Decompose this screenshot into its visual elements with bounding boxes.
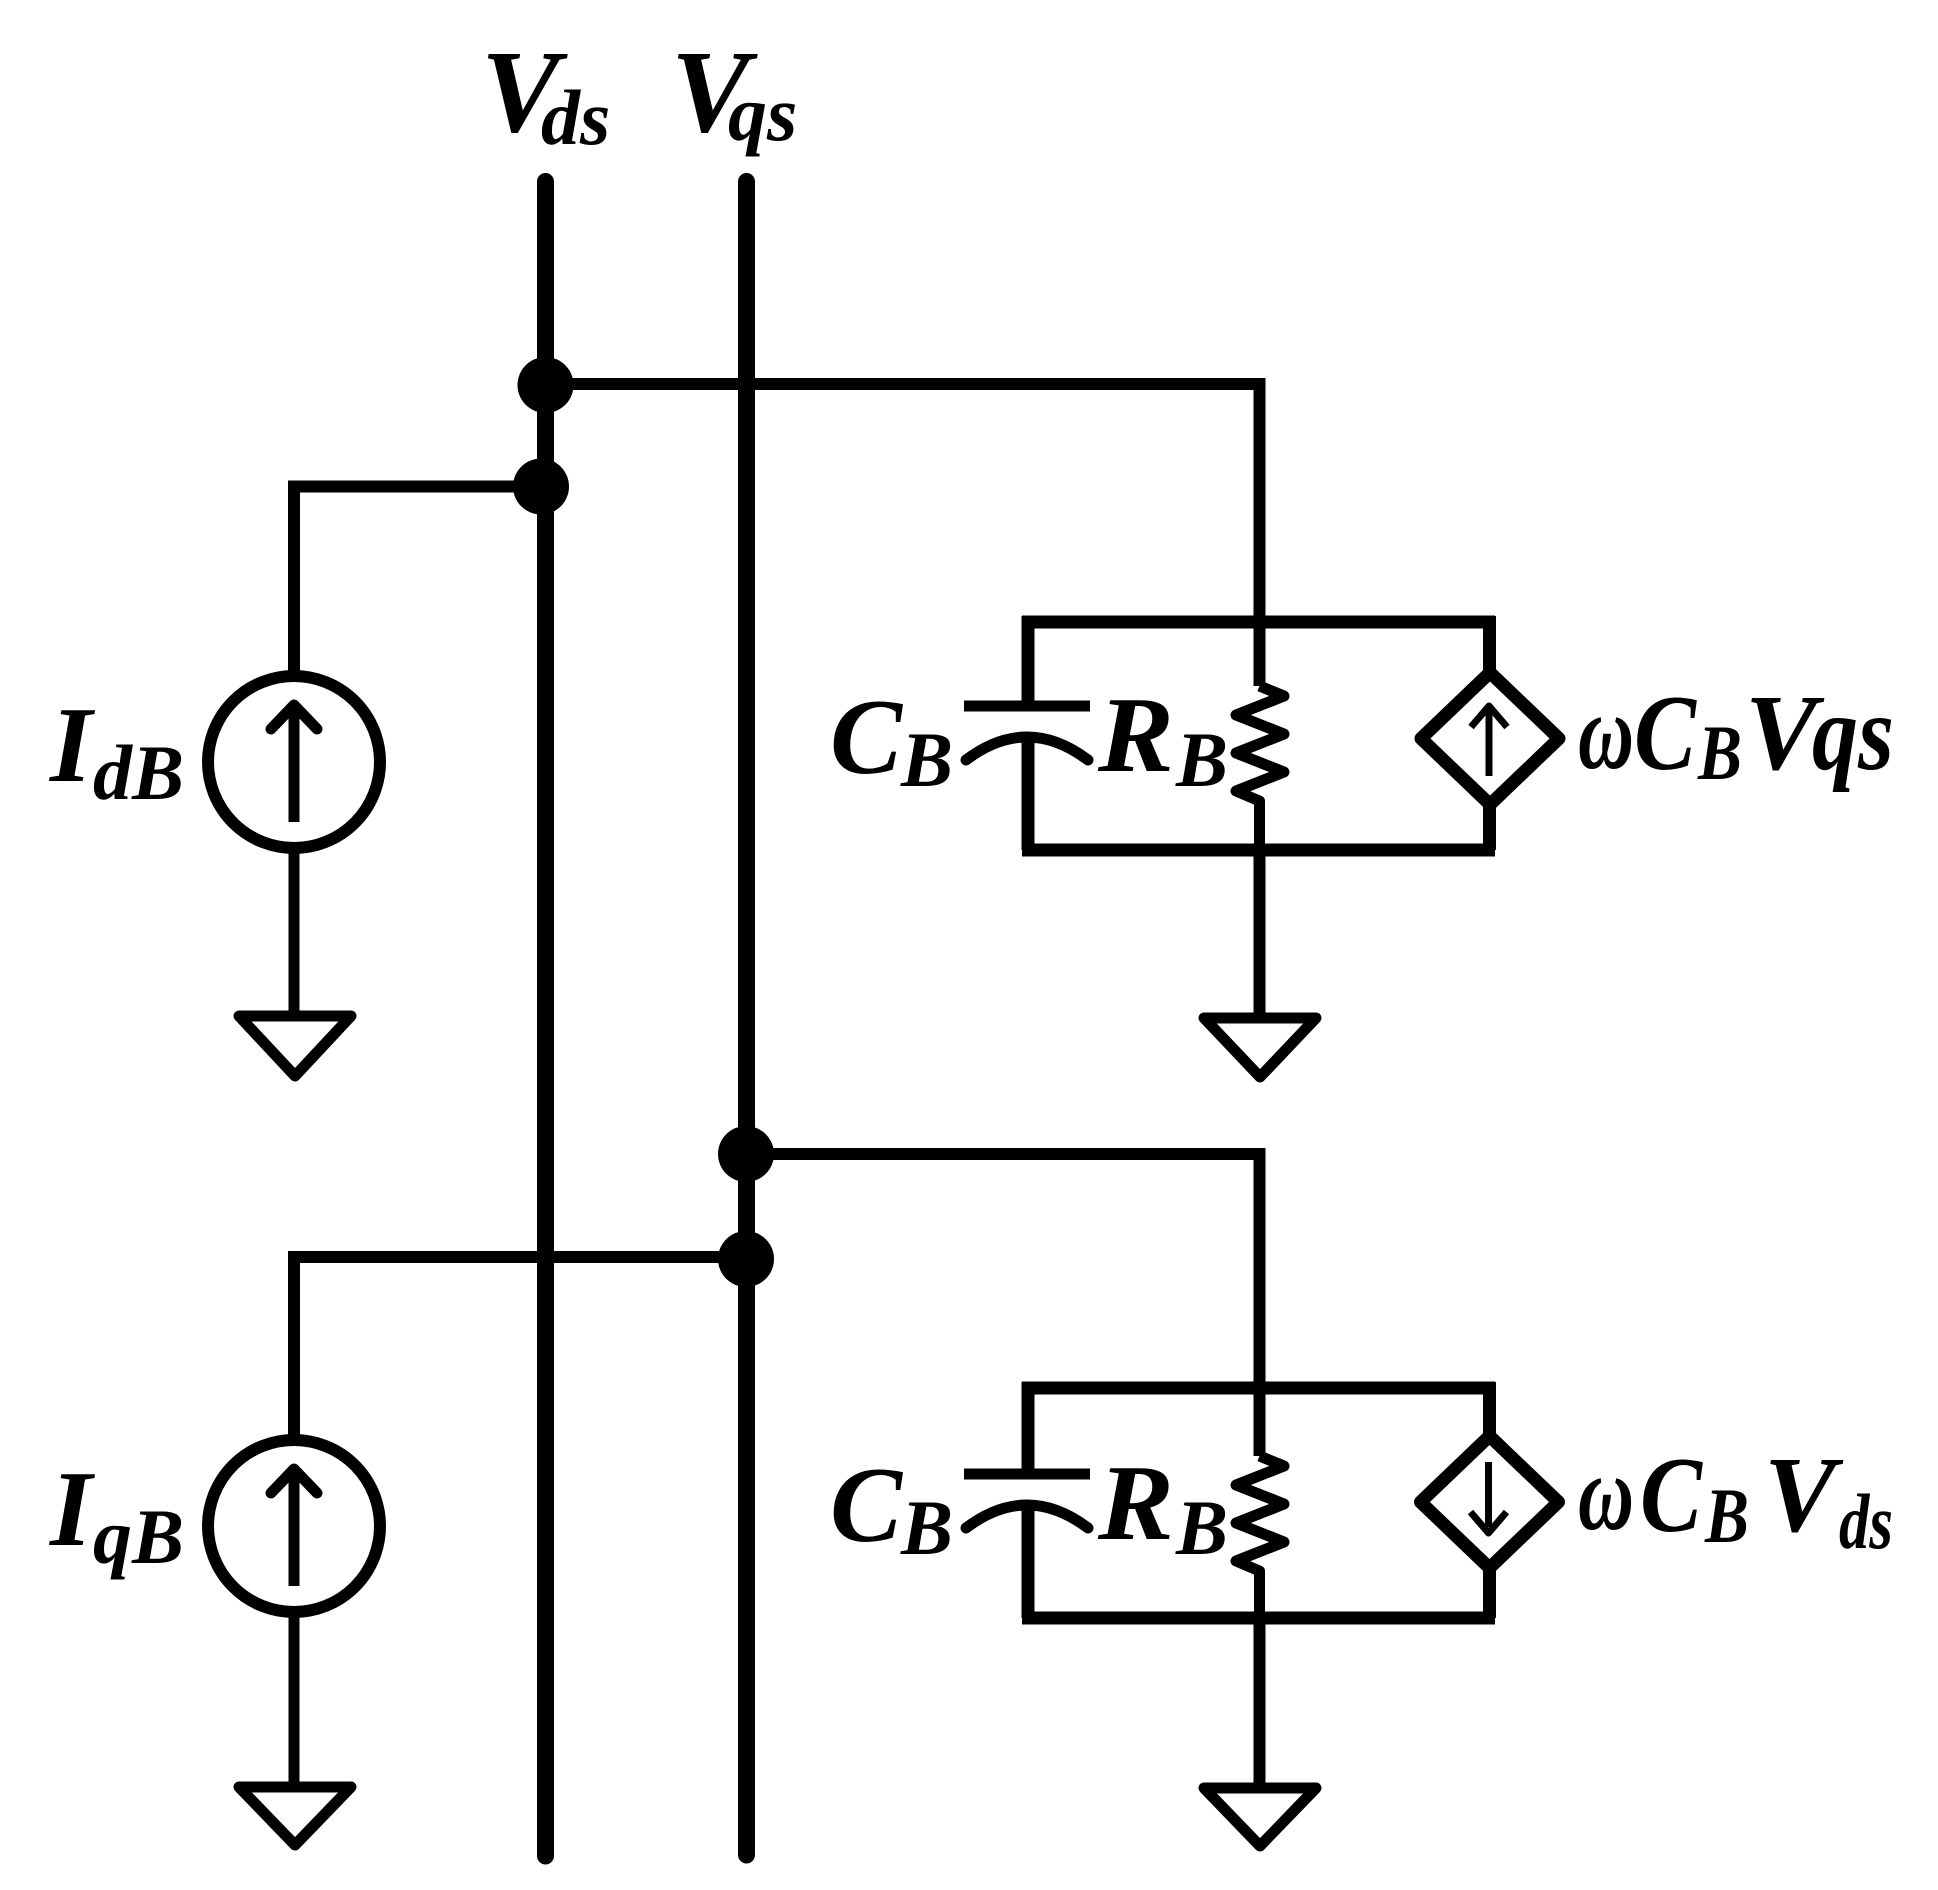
ground (under IdB) <box>239 1016 351 1076</box>
wire dependent source branch upper <box>1483 1382 1496 1440</box>
label IdB <box>48 686 184 816</box>
wire capacitor branch upper <box>1022 616 1035 701</box>
svg-text:dB: dB <box>93 729 184 816</box>
wire dependent source branch upper <box>1483 616 1496 676</box>
node Vds label <box>481 26 610 161</box>
wire Vds bus line <box>537 182 554 1857</box>
ground (under IqB) <box>239 1787 351 1845</box>
wire from IqB up and right to Vqs junction <box>294 1257 746 1436</box>
resistor RB zigzag <box>1236 1456 1284 1618</box>
current source IdB circle <box>208 676 380 848</box>
wire Vqs bus line <box>738 182 755 1856</box>
wire from Vqs junction right and down to bottom RC network resistor <box>746 1154 1260 1456</box>
svg-text:B: B <box>900 716 953 803</box>
capacitor CB curved plate <box>966 737 1088 760</box>
wire bottom rail <box>1022 844 1495 857</box>
svg-text:V: V <box>1764 1436 1844 1555</box>
label CB <box>830 678 953 803</box>
current source IqB arrow <box>271 1469 317 1586</box>
label CB <box>830 1446 953 1571</box>
svg-text:B: B <box>1175 1484 1228 1571</box>
capacitor CB top plate <box>964 1469 1090 1480</box>
dependent source up arrow <box>1471 706 1507 776</box>
junction dot on Vds (to top-right RC network) <box>518 357 574 413</box>
svg-text:I: I <box>48 1450 96 1569</box>
wire capacitor branch lower <box>1022 737 1035 850</box>
svg-text:R: R <box>1097 1444 1174 1563</box>
label RB <box>1097 1444 1228 1571</box>
wire bottom rail <box>1022 1612 1495 1625</box>
wire IdB to ground <box>289 848 300 1011</box>
dependent source diamond (wCBVds) <box>1421 1436 1559 1568</box>
svg-text:C: C <box>1640 1436 1704 1555</box>
svg-text:I: I <box>48 686 96 805</box>
svg-text:ω: ω <box>1578 1434 1634 1553</box>
wire capacitor branch lower <box>1022 1505 1035 1618</box>
wire from IdB up and right to Vds junction <box>294 487 541 673</box>
svg-text:ds: ds <box>541 74 610 161</box>
label IqB <box>48 1450 184 1580</box>
wire bottom rail to ground <box>1254 1618 1266 1783</box>
svg-text:B: B <box>900 1484 953 1571</box>
svg-text:C: C <box>1634 674 1698 793</box>
svg-text:C: C <box>830 1446 904 1565</box>
wire top rail <box>1022 616 1495 629</box>
wire bottom rail to ground <box>1254 850 1266 1013</box>
svg-text:qs: qs <box>728 70 797 157</box>
label wCBVqs <box>1578 673 1894 796</box>
junction dot on Vds (to IdB source) <box>513 459 569 515</box>
junction dot on Vqs (to IqB source) <box>718 1231 774 1287</box>
capacitor CB curved plate <box>966 1505 1088 1528</box>
svg-text:C: C <box>830 678 904 797</box>
wire IqB to ground <box>289 1612 300 1782</box>
wire capacitor branch upper <box>1022 1382 1035 1469</box>
wire top rail <box>1022 1382 1495 1395</box>
svg-text:ds: ds <box>1839 1478 1893 1565</box>
capacitor CB top plate <box>964 701 1090 712</box>
wire dependent source branch lower <box>1483 1566 1496 1618</box>
current source IqB circle <box>208 1440 380 1612</box>
dependent source diamond (wCBVqs) <box>1421 673 1559 805</box>
junction dot on Vqs (to bottom-right RC network) <box>718 1126 774 1182</box>
label RB <box>1097 676 1228 803</box>
svg-text:ω: ω <box>1578 673 1634 792</box>
ground (bottom-right network) <box>1204 1788 1316 1846</box>
wire from Vds junction right and down to top RC network resistor <box>546 384 1260 686</box>
svg-text:qB: qB <box>93 1493 184 1580</box>
dependent source down arrow <box>1471 1462 1507 1533</box>
wire dependent source branch lower <box>1483 802 1496 850</box>
svg-text:B: B <box>1697 709 1742 796</box>
svg-text:B: B <box>1175 716 1228 803</box>
svg-text:qs: qs <box>1812 674 1894 793</box>
node Vqs label <box>671 26 797 157</box>
svg-text:B: B <box>1704 1472 1749 1559</box>
ground (top-right network) <box>1204 1018 1316 1077</box>
label wCBVds <box>1578 1434 1893 1565</box>
current source IdB arrow <box>271 705 317 822</box>
resistor RB zigzag <box>1236 686 1284 850</box>
svg-text:R: R <box>1097 676 1174 795</box>
